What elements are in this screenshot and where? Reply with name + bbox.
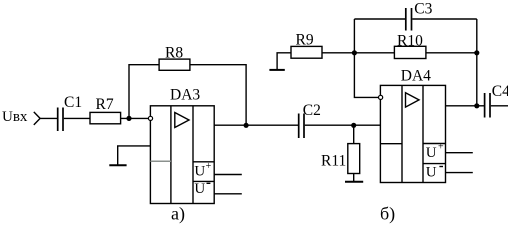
svg-text:б): б) [380,204,395,225]
svg-text:C4: C4 [492,83,508,100]
svg-text:U: U [426,164,437,180]
svg-text:C1: C1 [64,94,82,111]
svg-text:R11: R11 [321,152,346,169]
svg-text:R7: R7 [96,96,114,113]
svg-text:R9: R9 [296,31,314,48]
svg-text:U: U [194,164,205,180]
svg-text:C2: C2 [303,102,321,119]
svg-text:+: + [438,142,444,153]
svg-text:U: U [194,181,205,197]
svg-text:Uвх: Uвх [2,109,28,125]
svg-text:+: + [206,161,212,172]
svg-text:R8: R8 [165,45,183,62]
svg-text:C3: C3 [414,1,432,18]
svg-text:R10: R10 [397,33,423,50]
svg-text:а): а) [171,204,185,225]
svg-text:DA4: DA4 [401,67,431,84]
svg-text:DA3: DA3 [170,87,200,104]
svg-text:U: U [426,145,437,161]
